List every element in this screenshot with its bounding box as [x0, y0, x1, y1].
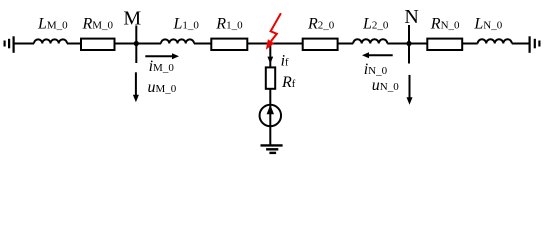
arrow if (black) — [267, 57, 273, 64]
ground bottom — [261, 145, 283, 153]
wire — [269, 89, 271, 145]
inductor L2_0 — [353, 39, 387, 43]
resistor R2_0 — [303, 39, 338, 50]
arrow iM_0 — [145, 53, 179, 59]
wire — [387, 43, 427, 45]
wire — [338, 43, 354, 45]
inductor L1_0 — [161, 39, 194, 43]
wire — [247, 43, 302, 45]
wire — [462, 43, 478, 45]
arrow uM_0 — [133, 72, 139, 102]
current source arrow — [267, 105, 274, 114]
node N — [408, 25, 410, 64]
wire — [512, 43, 530, 45]
wire — [14, 43, 34, 45]
arrow iN_0 — [362, 52, 393, 58]
resistor RM_0 — [81, 39, 115, 50]
svg-text:N: N — [404, 6, 418, 28]
node M — [135, 26, 137, 64]
ground right — [530, 36, 540, 53]
inductor LM_0 — [34, 39, 67, 43]
inductor LN_0 — [478, 39, 512, 43]
fault branch wire — [269, 44, 271, 68]
resistor Rf — [266, 67, 275, 88]
arrow uN_0 — [407, 75, 413, 105]
wire — [115, 43, 162, 45]
resistor RN_0 — [427, 39, 462, 50]
wire — [67, 43, 81, 45]
current source circle — [260, 105, 282, 127]
lightning bolt (fault) — [266, 13, 281, 50]
ground left — [5, 36, 14, 53]
svg-text:M: M — [123, 8, 141, 30]
wire — [194, 43, 211, 45]
resistor R1_0 — [211, 39, 247, 50]
